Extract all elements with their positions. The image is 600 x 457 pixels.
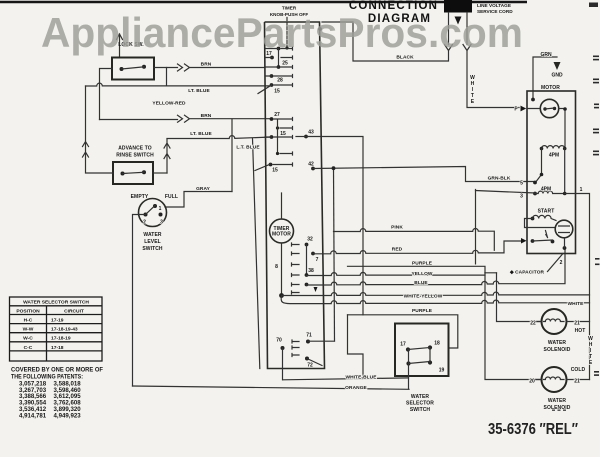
wire WHITE-BLUE (283, 378, 409, 380)
svg-text:BRN: BRN (201, 62, 212, 68)
vertical WHITE label (service cord) (470, 75, 475, 105)
svg-text:WATER: WATER (548, 340, 566, 346)
wire PINK (334, 229, 495, 251)
svg-text:17-18-19-43: 17-18-19-43 (51, 327, 78, 333)
water selector switch table (10, 297, 103, 361)
svg-text:21: 21 (574, 379, 580, 385)
svg-text:PURPLE: PURPLE (412, 261, 433, 267)
motor centrifugal switch (535, 149, 542, 184)
timer contact 9 (305, 283, 309, 287)
svg-text:21: 21 (574, 321, 580, 327)
wire WHITE row (281, 297, 589, 304)
page top border bar (0, 1, 527, 4)
svg-text:1: 1 (580, 187, 583, 193)
svg-text:ORANGE: ORANGE (345, 385, 367, 391)
svg-text:L.T. BLUE: L.T. BLUE (236, 145, 260, 151)
svg-text:WATER SELECTOR SWITCH: WATER SELECTOR SWITCH (23, 300, 89, 306)
water selector switch box (395, 324, 449, 377)
svg-text:H-C: H-C (24, 318, 33, 324)
svg-text:22: 22 (530, 321, 536, 327)
timer box outline (265, 22, 325, 369)
svg-text:DIAGRAM: DIAGRAM (368, 13, 431, 25)
lock switch arrow (117, 34, 123, 57)
connector arrows to rinse switch (164, 139, 170, 173)
svg-text:SWITCH: SWITCH (142, 246, 163, 252)
svg-text:MOTOR: MOTOR (272, 232, 291, 238)
service cord label (477, 3, 513, 14)
svg-text:15: 15 (272, 168, 278, 174)
svg-text:WHITE-YELLOW: WHITE-YELLOW (404, 293, 443, 299)
svg-text:WHITE-BLUE: WHITE-BLUE (345, 375, 377, 381)
motor ground wire GRN (533, 57, 557, 100)
timer motor M1 (270, 219, 294, 243)
svg-text:18: 18 (434, 341, 440, 347)
svg-text:CIRCUIT: CIRCUIT (64, 309, 84, 315)
svg-text:SOLENOID: SOLENOID (544, 405, 571, 411)
service cord white conductor (463, 13, 519, 108)
svg-text:YELLOW: YELLOW (411, 271, 432, 277)
svg-text:GRAY: GRAY (196, 186, 211, 192)
wire BLUE to motor 2 (307, 249, 566, 286)
svg-text:HOT: HOT (575, 328, 586, 334)
timer contact 38 (305, 273, 309, 277)
svg-text:GRN: GRN (540, 52, 552, 58)
timer knob label (270, 6, 308, 17)
capacitor C1 (555, 220, 573, 238)
timer contact 72 (305, 357, 309, 361)
svg-text:3: 3 (520, 194, 523, 200)
svg-text:BRN: BRN (201, 113, 212, 119)
water solenoid cold (542, 367, 567, 392)
svg-text:COVERED BY ONE OR MORE OF: COVERED BY ONE OR MORE OF (11, 367, 103, 374)
svg-text:SOLENOID: SOLENOID (544, 347, 571, 353)
svg-text:SWITCH: SWITCH (410, 407, 431, 413)
selector terminal 18 (428, 345, 432, 349)
svg-text:1: 1 (159, 206, 162, 212)
svg-text:LT. BLUE: LT. BLUE (188, 88, 210, 94)
riser to cold solenoid 20 (485, 273, 542, 380)
svg-text:GND: GND (551, 73, 563, 79)
svg-text:E: E (471, 99, 475, 105)
svg-text:WHITE: WHITE (568, 301, 585, 307)
title CONNECTION DIAGRAM (349, 0, 438, 25)
wire WHITE-YELLOW (282, 292, 590, 295)
svg-text:4PM: 4PM (549, 153, 559, 159)
wire LT. BLUE row 2 (167, 136, 272, 139)
patents note (11, 367, 103, 420)
svg-text:42: 42 (308, 162, 314, 168)
svg-text:PURPLE: PURPLE (412, 308, 433, 314)
timer contact 71 (306, 340, 310, 344)
timer contact 15b (269, 163, 273, 167)
svg-text:7: 7 (316, 257, 319, 263)
svg-text:35-6376 ″REL″: 35-6376 ″REL″ (488, 421, 578, 438)
svg-text:FULL: FULL (165, 194, 178, 200)
timer contact 43 (304, 135, 308, 139)
selector common stub (408, 350, 410, 390)
service cord black conductor (322, 13, 453, 62)
wire LT. BLUE row 1 (86, 83, 272, 86)
svg-text:WATER: WATER (548, 398, 566, 404)
svg-text:GRN-BLK: GRN-BLK (488, 176, 511, 182)
svg-text:W-W: W-W (23, 327, 34, 333)
motor main winding 4PM (542, 146, 565, 149)
svg-text:RINSE SWITCH: RINSE SWITCH (116, 153, 154, 159)
timer contact 70 (281, 346, 285, 350)
timer knob link (286, 18, 288, 49)
svg-text:RED: RED (392, 247, 403, 253)
svg-text:LT. BLUE: LT. BLUE (190, 131, 212, 137)
wire motor 3 (476, 191, 536, 194)
vertical WHITE label right (588, 336, 593, 366)
wire gray riser (231, 119, 233, 192)
advance to rinse switch box (113, 162, 153, 184)
selector lower contacts (406, 361, 410, 365)
svg-text:EMPTY: EMPTY (131, 194, 149, 200)
svg-text:28: 28 (277, 78, 283, 84)
svg-text:20: 20 (529, 379, 535, 385)
wire YELLOW (307, 272, 497, 275)
water solenoid hot (542, 309, 567, 334)
svg-text:15: 15 (274, 89, 280, 95)
arrow P into motor (521, 106, 527, 112)
timer contact 15 (270, 83, 274, 87)
wire water level switch to orange row (133, 215, 146, 387)
svg-text:BLUE: BLUE (414, 280, 428, 286)
wire ORANGE (133, 386, 410, 389)
svg-text:START: START (538, 209, 555, 215)
svg-text:4PM: 4PM (541, 187, 551, 193)
svg-text:27: 27 (274, 112, 280, 118)
riser to hot solenoid 22 (497, 273, 542, 322)
wire rinse switch right to lt blue row (153, 172, 167, 174)
wire contact 43 to purple riser (306, 137, 363, 315)
svg-text:TIMER: TIMER (282, 6, 297, 11)
wire lt blue drop to timer bottom (253, 139, 260, 369)
svg-text:71: 71 (306, 333, 312, 339)
selector terminal 17 (406, 347, 410, 351)
scan speck marks (552, 410, 555, 411)
wire RED (313, 241, 521, 254)
svg-text:SELECTOR: SELECTOR (406, 401, 434, 407)
svg-text:19: 19 (439, 368, 445, 374)
timer contact 7 (311, 252, 315, 256)
svg-text:COLD: COLD (571, 367, 586, 373)
line voltage service cord (black box) (444, 0, 472, 13)
svg-text:32: 32 (307, 237, 313, 243)
svg-text:8: 8 (275, 264, 278, 270)
service cord strain arrow (455, 17, 462, 25)
motor box (527, 91, 576, 254)
svg-text:3: 3 (160, 220, 163, 226)
timer contact 42 (311, 167, 315, 171)
svg-text:YELLOW-RED: YELLOW-RED (152, 101, 186, 107)
svg-text:WATER: WATER (143, 232, 161, 238)
svg-text:17: 17 (400, 342, 406, 348)
svg-text:POSITION: POSITION (16, 309, 40, 315)
svg-text:W-C: W-C (23, 336, 33, 342)
svg-text:17-18: 17-18 (51, 345, 64, 351)
timer contact 17 (277, 47, 281, 51)
svg-text:4,949,923: 4,949,923 (54, 412, 82, 419)
svg-text:KNOB-PUSH OFF: KNOB-PUSH OFF (270, 12, 308, 17)
wire PURPLE lower row to selector 18 (348, 315, 458, 348)
svg-text:◆ CAPACITOR: ◆ CAPACITOR (509, 270, 545, 276)
motor winding 4PM second (535, 149, 565, 194)
wire lock switch left to yellow-red row (100, 69, 113, 120)
wire rinse switch left feed with connector arrows (83, 86, 114, 173)
svg-text:WATER: WATER (411, 394, 429, 400)
lock switch box (112, 58, 154, 80)
wire GRN-BLK from contact 42 to motor 5 (313, 167, 535, 182)
riser pink/71 (334, 168, 335, 341)
capacitor bottom node 2 (563, 246, 567, 250)
timer contact 25 (270, 56, 274, 60)
junction lock row to lt blue row (166, 68, 168, 86)
svg-text:43: 43 (308, 130, 314, 136)
svg-text:5: 5 (520, 181, 523, 187)
motor protector (540, 99, 558, 117)
svg-text:2: 2 (143, 220, 146, 226)
wire motor 1 (565, 194, 590, 380)
right margin cut-off text marks (589, 3, 600, 376)
svg-text:17-19: 17-19 (51, 318, 64, 324)
wire contact 70 drop to white-blue (282, 348, 284, 380)
wire purple2 drop to white-blue (348, 315, 364, 378)
svg-text:PINK: PINK (391, 225, 403, 231)
svg-text:SERVICE CORD: SERVICE CORD (477, 9, 513, 14)
timer contact 27 (270, 117, 274, 121)
svg-text:70: 70 (276, 338, 282, 344)
svg-text:LINE VOLTAGE: LINE VOLTAGE (477, 3, 511, 8)
wire lock switch right / BRN with connector (154, 64, 265, 71)
wire PURPLE to motor 3 riser (348, 190, 486, 273)
svg-text:25: 25 (282, 61, 288, 67)
node neutral junction (279, 293, 284, 298)
svg-text:LEVEL: LEVEL (144, 239, 161, 245)
svg-text:4,914,781: 4,914,781 (19, 412, 47, 419)
timer contact 32 (305, 243, 309, 247)
wire GRAY (165, 192, 232, 208)
svg-text:38: 38 (308, 268, 314, 274)
svg-text:C-C: C-C (24, 345, 33, 351)
svg-text:ADVANCE TO: ADVANCE TO (118, 146, 152, 152)
wire YELLOW-RED / BRN row to contact 27 (100, 115, 272, 122)
motor start switch (531, 239, 535, 243)
svg-text:15: 15 (280, 131, 286, 137)
svg-text:17-18-19: 17-18-19 (51, 336, 71, 342)
timer contact 15a (270, 135, 274, 139)
water level switch (139, 199, 167, 227)
svg-text:MOTOR: MOTOR (541, 85, 560, 91)
svg-text:CONNECTION: CONNECTION (349, 0, 438, 12)
svg-text:72: 72 (307, 363, 313, 369)
timer contact 28 (270, 74, 274, 78)
svg-text:2: 2 (560, 260, 563, 266)
